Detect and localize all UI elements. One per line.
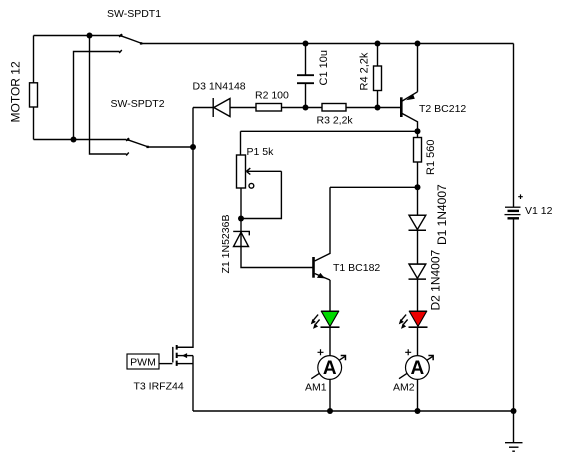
transistor T2 emitter bbox=[402, 92, 417, 101]
ammeter AM2 needle bbox=[399, 356, 433, 379]
MOSFET T3 gate plate bbox=[172, 347, 174, 363]
junction AM2 / bottom rail bbox=[415, 408, 421, 414]
MOSFET T3 drain stub bbox=[177, 346, 193, 348]
ammeter AM2 plus bbox=[405, 349, 411, 355]
diode D2 cathode bar bbox=[409, 278, 427, 280]
wire Z1 to T1 base bbox=[241, 231, 313, 267]
wire R2 to R3 row bbox=[282, 107, 323, 109]
svg-text:R4 2,2k: R4 2,2k bbox=[359, 52, 371, 90]
junction T2 collector / R1 / P1 bbox=[415, 128, 421, 134]
wire top rail bbox=[142, 43, 514, 45]
transistor T1 emitter arrow bbox=[317, 273, 325, 279]
diode D3 cathode bar bbox=[212, 98, 214, 117]
diode D1 base line bbox=[409, 214, 427, 216]
wire D3 to R2 bbox=[230, 107, 256, 109]
resistor R1 body bbox=[414, 138, 422, 163]
resistor R2 body bbox=[256, 104, 282, 112]
svg-text:SW-SPDT1: SW-SPDT1 bbox=[107, 8, 161, 20]
transistor T2 emitter arrow bbox=[406, 94, 415, 100]
wire LED1 to AM1 bbox=[329, 327, 331, 356]
switch SW-SPDT1 contact tick lower bbox=[119, 50, 122, 53]
wire SPDT2 common to node bbox=[149, 146, 194, 148]
wire R3 to T2 base bbox=[346, 107, 401, 109]
wire D3 anode lead bbox=[193, 107, 213, 109]
wire LED2 to AM2 bbox=[417, 327, 419, 356]
wire right vertical top bbox=[513, 44, 515, 208]
junction motor top / SPDT2 throw2 bbox=[87, 33, 93, 39]
svg-text:Z1 1N5236B: Z1 1N5236B bbox=[220, 215, 232, 274]
svg-text:V1 12: V1 12 bbox=[525, 205, 553, 217]
wire ground lead bbox=[513, 411, 515, 443]
junction AM1 / bottom rail bbox=[327, 408, 333, 414]
svg-text:MOTOR 12: MOTOR 12 bbox=[8, 61, 22, 122]
LED LED2 cathode bar bbox=[409, 326, 428, 328]
wire bottom motor rail bbox=[34, 139, 127, 141]
switch SW-SPDT2 contact tick lower bbox=[126, 153, 129, 156]
svg-text:P1 5k: P1 5k bbox=[247, 146, 275, 158]
wire motor bottom lead bbox=[33, 107, 35, 140]
wire collector junction row bbox=[330, 186, 418, 188]
switch SW-SPDT1 arm bbox=[121, 36, 142, 44]
svg-text:R3 2,2k: R3 2,2k bbox=[317, 115, 354, 127]
capacitor C1 plates bbox=[297, 74, 314, 76]
wire AM2 to rail bbox=[417, 379, 419, 411]
transistor T2 collector bbox=[402, 114, 417, 132]
resistor R4 bottom lead bbox=[377, 91, 379, 108]
diode D2 triangle bbox=[409, 264, 426, 278]
potentiometer P1 body bbox=[237, 155, 246, 188]
LED LED1 base line bbox=[321, 310, 339, 312]
switch SW-SPDT2 pivot nubs bbox=[127, 138, 129, 140]
wire P1 bottom to Z1 bbox=[240, 188, 242, 231]
junction R2 / C1 / R3 bbox=[303, 105, 309, 111]
wire T1 emitter to LED1 bbox=[329, 280, 331, 311]
wire R1 to junction bbox=[417, 162, 419, 187]
resistor R4 body bbox=[374, 66, 382, 91]
wire D2 to LED2 bbox=[417, 279, 419, 311]
junction R1 / D1 / T1 collector bbox=[415, 184, 421, 190]
transistor T1 collector bbox=[315, 187, 330, 261]
ground symbol bbox=[505, 442, 523, 444]
resistor R3 body bbox=[322, 104, 346, 112]
wire junction to D1 bbox=[417, 187, 419, 215]
wire SPDT1 lower throw stub bbox=[74, 52, 120, 140]
switch SW-SPDT2 arm bbox=[128, 140, 149, 147]
switch SW-SPDT1 contact tick upper bbox=[119, 34, 122, 37]
motor M 12 body bbox=[30, 83, 38, 107]
wire to P1 top bbox=[240, 131, 242, 155]
transistor T1 base bar bbox=[312, 257, 315, 278]
wire left vertical (motor top lead) bbox=[33, 36, 35, 84]
LED LED2 base line bbox=[409, 310, 427, 312]
switch SW-SPDT1 pivot nubs bbox=[120, 34, 122, 36]
capacitor C1 top lead bbox=[305, 44, 307, 75]
junction top rail / C1 bbox=[303, 41, 309, 47]
svg-text:R1 560: R1 560 bbox=[425, 140, 437, 175]
wire SPDT2 lower throw stub bbox=[90, 36, 127, 155]
wire D1 to D2 bbox=[417, 230, 419, 264]
resistor R4 top lead bbox=[377, 44, 379, 67]
junction top rail / T2 emitter bbox=[415, 41, 421, 47]
svg-text:AM2: AM2 bbox=[393, 382, 415, 394]
wire PWM to gate bbox=[159, 363, 172, 365]
junction P1 wiper / Z1 bbox=[238, 216, 244, 222]
transistor T2 base bar bbox=[400, 97, 403, 117]
battery V1 plates bbox=[505, 206, 521, 208]
diode D3 triangle bbox=[214, 99, 230, 117]
wire bottom rail bbox=[193, 410, 514, 412]
battery V1 plus sign bbox=[518, 194, 523, 199]
LED LED2 emission arrows bbox=[401, 315, 406, 321]
transistor T1 emitter bbox=[315, 274, 330, 281]
svg-text:R2 100: R2 100 bbox=[255, 90, 289, 102]
svg-text:C1 10u: C1 10u bbox=[318, 50, 330, 85]
wire R1 row horizontal bbox=[241, 130, 418, 132]
svg-text:D1 1N4007: D1 1N4007 bbox=[435, 184, 449, 245]
potentiometer P1 wiper arrow bbox=[247, 170, 282, 172]
LED LED1 cathode bar bbox=[321, 326, 340, 328]
LED LED2 triangle red bbox=[409, 311, 426, 326]
svg-text:SW-SPDT2: SW-SPDT2 bbox=[111, 98, 165, 110]
resistor R1 top lead bbox=[417, 131, 419, 137]
junction R3 / R4 / T2 base bbox=[375, 105, 381, 111]
junction battery / ground / bottom rail bbox=[511, 408, 517, 414]
svg-text:AM1: AM1 bbox=[305, 382, 327, 394]
diode D2 base line bbox=[409, 263, 427, 265]
switch SW-SPDT2 contact tick upper bbox=[126, 138, 129, 141]
zener Z1 triangle bbox=[234, 232, 249, 246]
wire MOSFET source to rail bbox=[192, 356, 194, 411]
wire top-left rail bbox=[34, 35, 121, 37]
wire P1 wiper loop bbox=[241, 171, 281, 218]
LED LED1 emission arrows bbox=[313, 315, 318, 321]
LED LED1 triangle green bbox=[321, 311, 338, 326]
zener Z1 cathode bar bbox=[233, 231, 249, 235]
svg-text:T2 BC212: T2 BC212 bbox=[419, 103, 466, 115]
wire right vertical bottom bbox=[513, 219, 515, 411]
svg-text:PWM: PWM bbox=[130, 356, 156, 368]
svg-text:D3 1N4148: D3 1N4148 bbox=[193, 80, 246, 92]
svg-text:D2 1N4007: D2 1N4007 bbox=[429, 249, 443, 310]
wire AM1 to rail bbox=[329, 379, 331, 411]
svg-text:A: A bbox=[323, 358, 337, 379]
diode D1 triangle bbox=[409, 215, 426, 229]
junction motor bottom / SPDT1 throw2 bbox=[71, 137, 77, 143]
MOSFET T3 electrode bars bbox=[176, 345, 178, 350]
diode D1 cathode bar bbox=[409, 229, 427, 231]
svg-text:T1 BC182: T1 BC182 bbox=[333, 262, 380, 274]
junction SPDT2 common node bbox=[190, 144, 196, 150]
ammeter AM2 circle bbox=[406, 356, 430, 380]
MOSFET T3 source line bbox=[178, 363, 194, 365]
MOSFET T3 body line with arrow bbox=[178, 355, 194, 357]
junction top rail / R4 bbox=[375, 41, 381, 47]
ammeter AM1 plus bbox=[318, 349, 324, 355]
PWM box bbox=[127, 354, 159, 369]
svg-text:A: A bbox=[411, 358, 425, 379]
wire vertical node to MOSFET drain bbox=[177, 108, 193, 348]
wire T2 emitter to top rail bbox=[417, 44, 419, 92]
capacitor C1 bottom lead bbox=[305, 84, 307, 108]
potentiometer P1 taper circle bbox=[249, 183, 254, 188]
ammeter AM1 circle bbox=[318, 356, 342, 380]
ammeter AM1 needle bbox=[311, 356, 345, 379]
svg-text:T3 IRFZ44: T3 IRFZ44 bbox=[134, 381, 184, 393]
